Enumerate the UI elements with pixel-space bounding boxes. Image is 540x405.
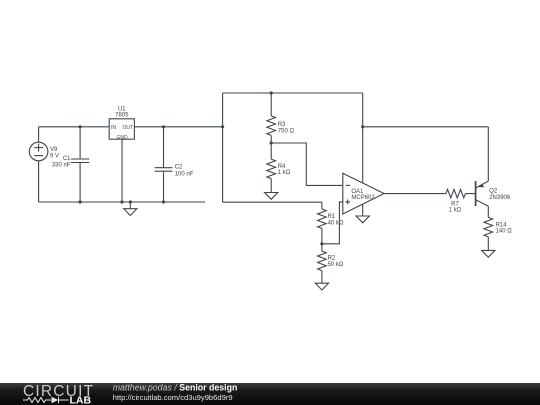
- svg-text:C1: C1: [63, 156, 71, 162]
- svg-text:140 Ω: 140 Ω: [496, 229, 513, 235]
- svg-text:R3: R3: [278, 122, 286, 128]
- svg-text:1 kΩ: 1 kΩ: [278, 170, 291, 176]
- svg-text:R2: R2: [328, 256, 336, 262]
- svg-text:R7: R7: [451, 202, 459, 208]
- svg-text:C2: C2: [175, 165, 183, 171]
- svg-text:U1: U1: [118, 106, 126, 112]
- svg-text:9 V: 9 V: [50, 154, 59, 160]
- svg-text:2N3906: 2N3906: [489, 195, 511, 201]
- svg-text:1 kΩ: 1 kΩ: [449, 208, 462, 214]
- svg-text:50 kΩ: 50 kΩ: [328, 262, 344, 268]
- svg-text:Q2: Q2: [489, 189, 498, 195]
- svg-text:750 Ω: 750 Ω: [278, 128, 295, 134]
- svg-text:330 nF: 330 nF: [52, 162, 71, 168]
- svg-text:40 kΩ: 40 kΩ: [328, 220, 344, 226]
- svg-text:R14: R14: [496, 222, 508, 228]
- svg-text:MCP602: MCP602: [351, 195, 375, 201]
- svg-text:matthew.podas / Senior design: matthew.podas / Senior design: [113, 382, 238, 392]
- svg-text:GND: GND: [117, 135, 129, 141]
- svg-text:7805: 7805: [115, 113, 129, 119]
- svg-text:100 nF: 100 nF: [175, 171, 194, 177]
- svg-text:R1: R1: [328, 214, 336, 220]
- svg-text:V9: V9: [50, 147, 58, 153]
- svg-text:IN: IN: [111, 125, 116, 131]
- svg-text:LAB: LAB: [70, 395, 92, 405]
- svg-text:http://circuitlab.com/cd3u9y9b: http://circuitlab.com/cd3u9y9b6d9r9: [113, 393, 233, 402]
- svg-text:OUT: OUT: [122, 125, 133, 131]
